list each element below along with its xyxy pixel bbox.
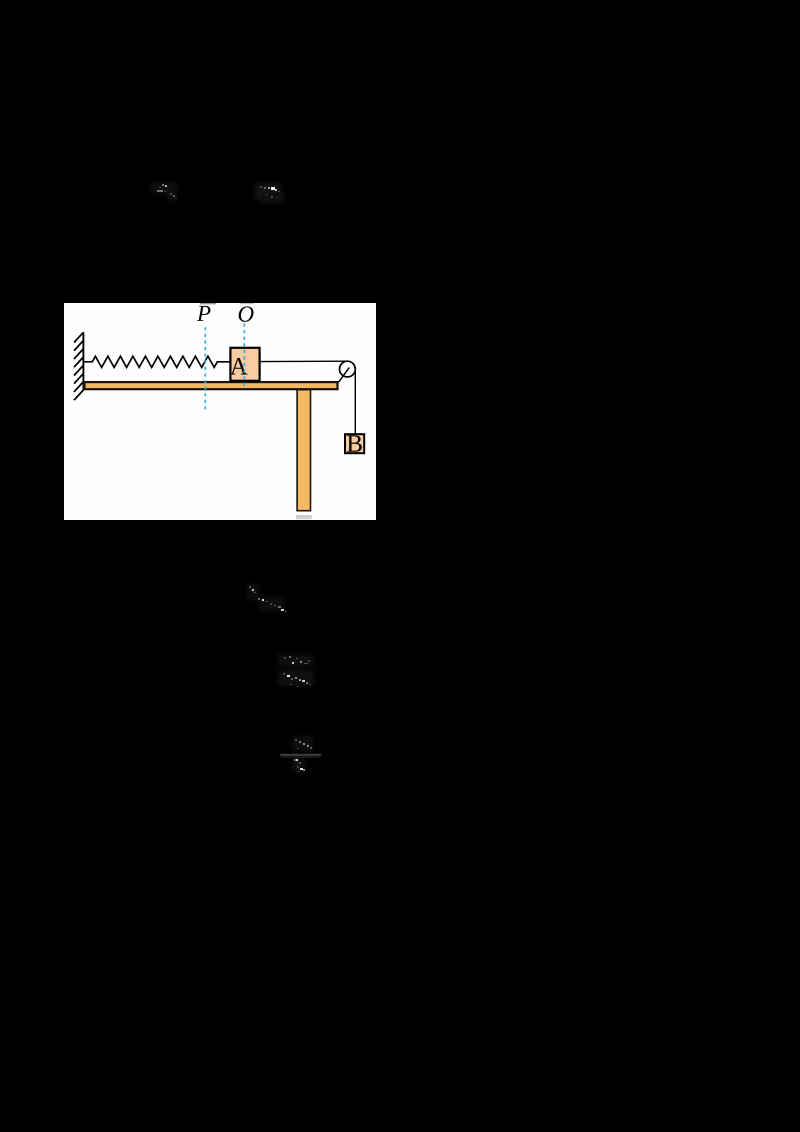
- faint formula fragment 1 (left, ~kx0): [151, 183, 177, 194]
- label P: [197, 306, 211, 321]
- leg shadow: [296, 515, 312, 519]
- faint formula fragment 2 (right, ~x0 term): [255, 183, 281, 200]
- label A: [230, 358, 248, 375]
- label O: [239, 306, 254, 321]
- faint formula fragment 4: [278, 654, 313, 667]
- clipped glyph remnant above O: [240, 303, 254, 304]
- table leg: [297, 390, 310, 511]
- block A: [230, 348, 259, 381]
- wall vertical line: [82, 332, 84, 390]
- table top: [85, 382, 338, 389]
- spring: [83, 356, 230, 367]
- clipped glyph remnant above P: [200, 303, 216, 304]
- string down from pulley to B: [354, 369, 356, 434]
- label B: [347, 435, 362, 451]
- pulley support rod: [339, 368, 350, 383]
- dashed line O: [243, 323, 245, 388]
- pulley: [340, 361, 356, 377]
- string from A to pulley: [260, 360, 347, 362]
- faint formula fragment 5 (fraction): [292, 736, 313, 751]
- wall hatching: [74, 332, 83, 400]
- faint formula fragment 3: [247, 584, 259, 600]
- dashed line P: [204, 327, 206, 409]
- block B: [345, 434, 364, 453]
- physics figure: white panel: [64, 303, 376, 520]
